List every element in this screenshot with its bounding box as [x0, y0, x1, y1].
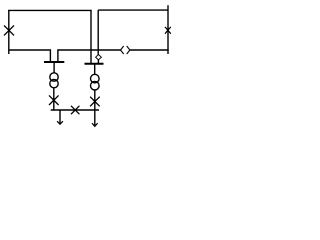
- wire: lead from T2 down through H4 to load arrow: [94, 90, 96, 126]
- wire: bus H2b continues right of fuse to V4: [130, 49, 169, 51]
- wire: top bus H1 (left loop): [8, 9, 92, 11]
- wire: bus H2b (right segment) with corner down to busbar BB1: [58, 50, 121, 62]
- breaker X3 on T1 lead: [49, 95, 59, 105]
- wire: left vertical V1: [8, 10, 10, 54]
- wire: top bus H3 (right loop): [98, 9, 168, 11]
- wire: vertical V2 (from H1 down to busbar BB2): [90, 10, 92, 63]
- busbar BB2: [85, 63, 104, 65]
- wire: vertical V3 (from H3 down through H2 to diamond): [97, 10, 99, 55]
- wire: lead from BB1 to transformer T1: [53, 62, 55, 73]
- load arrow L1 (down from H4): [57, 110, 63, 124]
- wire: bus H2a (left segment) with corner down to busbar BB1: [9, 50, 51, 62]
- wire: lead from BB2 to transformer T2: [94, 64, 96, 75]
- breaker X2 on V4: [165, 27, 171, 34]
- disconnector D1 (small diamond under V3): [96, 55, 102, 60]
- wire: right vertical V4: [167, 5, 169, 54]
- load arrow L2 (arrowhead at bottom of T2 lead): [92, 123, 98, 126]
- wire: lead from T1 down to H4: [53, 88, 55, 110]
- breaker X1 on V1: [4, 25, 14, 35]
- wire: lower horizontal H4: [51, 109, 99, 111]
- wire: stub from diamond to busbar BB2: [97, 60, 99, 64]
- fuse S1 (open diamond <> on H2b): [121, 46, 130, 54]
- transformer T1 (two-winding): [50, 73, 58, 88]
- breaker X4 on T2 lead: [90, 97, 100, 107]
- transformer T2 (two-winding): [91, 74, 100, 90]
- busbar BB1: [44, 61, 64, 63]
- breaker X5 on H4: [71, 106, 79, 114]
